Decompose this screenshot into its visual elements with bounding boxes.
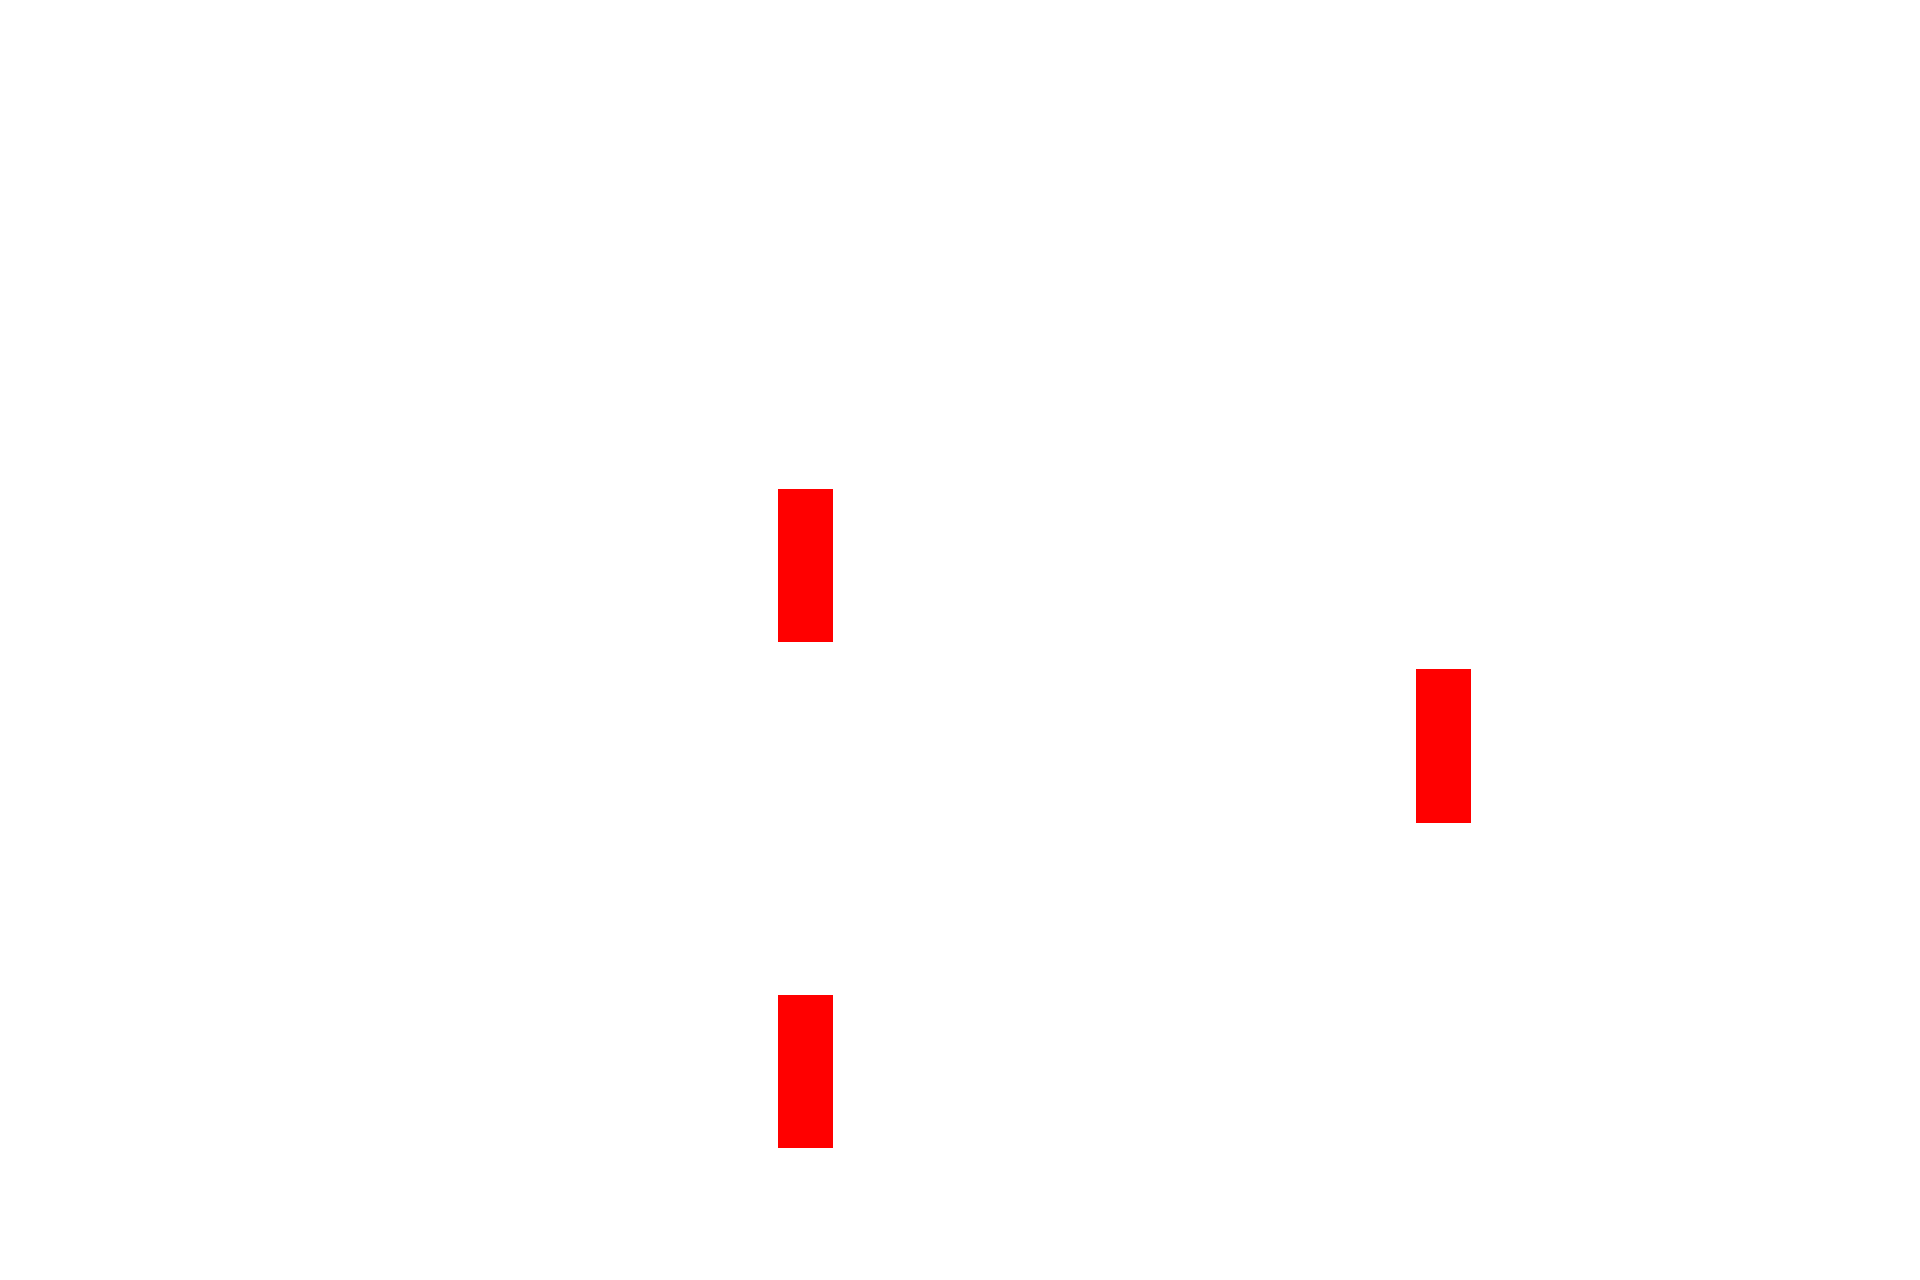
red bar 3 (lower left-center) [778,995,833,1148]
red bar 2 (middle right) [1416,669,1471,823]
red bar 1 (upper left-center) [778,489,833,642]
